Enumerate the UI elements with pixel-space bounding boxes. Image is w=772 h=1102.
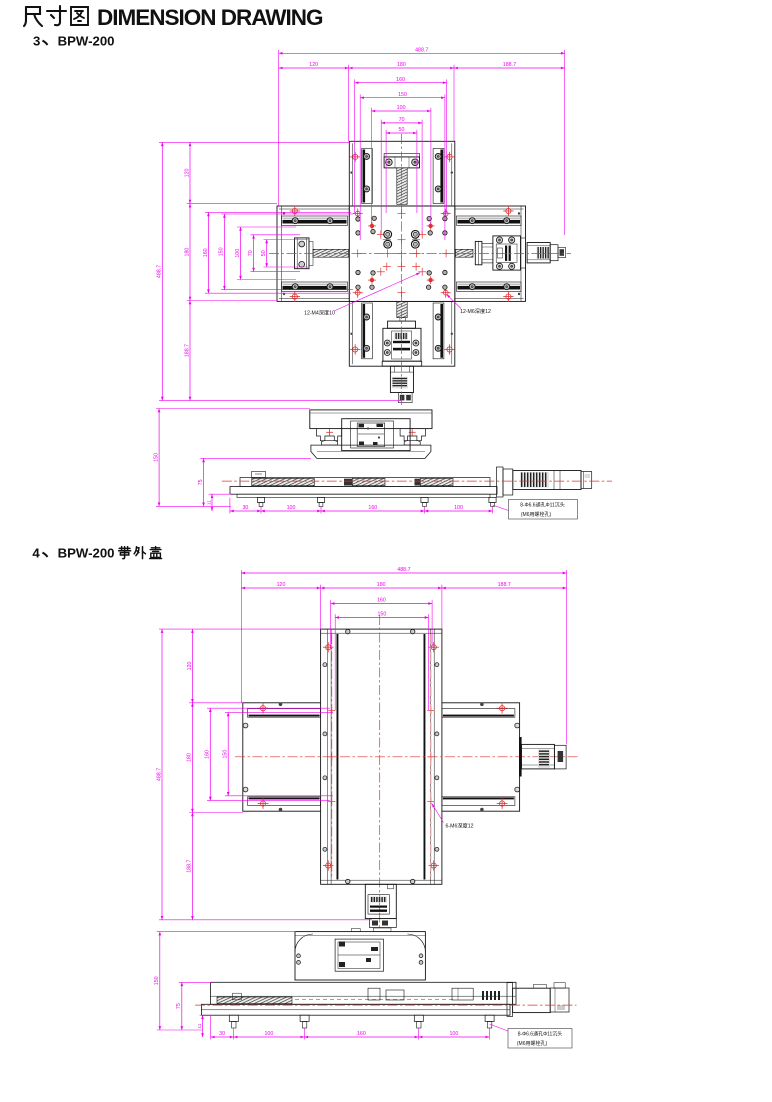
svg-text:(M6用螺栓孔): (M6用螺栓孔) bbox=[521, 511, 552, 518]
svg-text:3: 3 bbox=[33, 34, 40, 49]
svg-text:188.7: 188.7 bbox=[187, 859, 193, 872]
svg-text:160: 160 bbox=[203, 248, 209, 257]
svg-text:30: 30 bbox=[219, 1031, 225, 1037]
svg-text:150: 150 bbox=[154, 453, 160, 462]
svg-text:50: 50 bbox=[261, 250, 267, 256]
svg-text:12-M4深度10: 12-M4深度10 bbox=[304, 309, 335, 317]
svg-text:180: 180 bbox=[187, 753, 193, 762]
svg-text:488.7: 488.7 bbox=[156, 768, 162, 781]
svg-text:188.7: 188.7 bbox=[184, 344, 190, 357]
svg-text:120: 120 bbox=[309, 62, 318, 68]
svg-text:150: 150 bbox=[398, 92, 407, 98]
svg-text:180: 180 bbox=[184, 248, 190, 257]
svg-text:100: 100 bbox=[264, 1031, 273, 1037]
svg-text:75: 75 bbox=[198, 479, 204, 485]
svg-text:160: 160 bbox=[396, 77, 405, 83]
svg-text:120: 120 bbox=[277, 582, 286, 588]
svg-text:120: 120 bbox=[187, 661, 193, 670]
svg-text:11: 11 bbox=[206, 500, 212, 505]
svg-text:11: 11 bbox=[197, 1023, 203, 1028]
svg-text:75: 75 bbox=[176, 1003, 182, 1009]
svg-text:150: 150 bbox=[377, 612, 386, 618]
svg-text:(M6用螺栓孔): (M6用螺栓孔) bbox=[517, 1040, 548, 1047]
svg-text:160: 160 bbox=[377, 598, 386, 604]
svg-text:160: 160 bbox=[368, 505, 377, 511]
svg-text:488.7: 488.7 bbox=[397, 567, 410, 573]
svg-text:BPW-200: BPW-200 bbox=[58, 34, 115, 49]
svg-text:100: 100 bbox=[449, 1031, 458, 1037]
svg-text:100: 100 bbox=[454, 505, 463, 511]
svg-text:8-Φ6.6通孔Φ11沉头: 8-Φ6.6通孔Φ11沉头 bbox=[520, 502, 565, 509]
svg-text:BPW-200: BPW-200 bbox=[58, 546, 115, 561]
svg-text:180: 180 bbox=[397, 62, 406, 68]
svg-text:160: 160 bbox=[205, 750, 211, 759]
svg-text:100: 100 bbox=[397, 105, 406, 111]
svg-text:DIMENSION DRAWING: DIMENSION DRAWING bbox=[97, 5, 323, 30]
svg-text:70: 70 bbox=[399, 117, 405, 123]
svg-text:180: 180 bbox=[377, 582, 386, 588]
svg-text:188.7: 188.7 bbox=[503, 62, 516, 68]
svg-text:4: 4 bbox=[32, 546, 40, 561]
svg-text:100: 100 bbox=[235, 249, 241, 258]
svg-text:488.7: 488.7 bbox=[157, 265, 163, 278]
svg-text:6-M6深度12: 6-M6深度12 bbox=[446, 822, 474, 830]
svg-text:12-M6深度12: 12-M6深度12 bbox=[460, 307, 491, 315]
svg-text:50: 50 bbox=[399, 127, 405, 133]
svg-text:30: 30 bbox=[242, 505, 248, 511]
svg-text:150: 150 bbox=[223, 750, 229, 759]
svg-text:188.7: 188.7 bbox=[498, 582, 511, 588]
svg-text:100: 100 bbox=[287, 505, 296, 511]
svg-text:8-Φ6.6通孔Φ11沉头: 8-Φ6.6通孔Φ11沉头 bbox=[518, 1031, 563, 1038]
svg-text:120: 120 bbox=[184, 168, 190, 177]
svg-text:70: 70 bbox=[248, 250, 254, 256]
svg-text:150: 150 bbox=[154, 976, 160, 985]
svg-text:160: 160 bbox=[357, 1031, 366, 1037]
svg-text:488.7: 488.7 bbox=[415, 48, 428, 54]
svg-text:150: 150 bbox=[219, 247, 225, 256]
